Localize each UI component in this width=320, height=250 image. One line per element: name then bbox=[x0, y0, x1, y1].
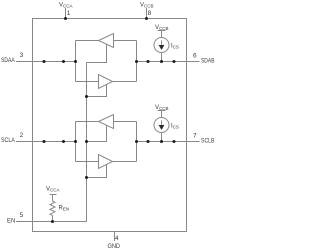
svg-text:VCCA: VCCA bbox=[46, 187, 60, 193]
svg-text:ICS: ICS bbox=[171, 124, 179, 130]
wire enable tap U1A bbox=[87, 44, 107, 62]
node SCLA b bbox=[62, 140, 65, 143]
svg-text:SDAB: SDAB bbox=[201, 59, 215, 65]
buffer U2A (B-to-A, points left) bbox=[99, 115, 114, 129]
node SDAA loop junction bbox=[74, 60, 77, 63]
svg-text:REN: REN bbox=[59, 206, 70, 212]
wire SDAA (pin 3 net, left) bbox=[16, 61, 76, 63]
wire enable tap U2B bbox=[87, 165, 107, 178]
node SCLB loop junction bbox=[135, 140, 138, 143]
current source I1 (VCCB boost on SDAB) bbox=[154, 31, 169, 62]
node SDAA a bbox=[43, 60, 46, 63]
node EN rail tap U1B bbox=[85, 95, 88, 98]
buffer U1A (B-to-A, points left) bbox=[99, 34, 114, 48]
wire channel-1 buffer loop bbox=[76, 41, 137, 82]
node SCLB a bbox=[147, 140, 150, 143]
svg-text:EN: EN bbox=[7, 218, 15, 224]
svg-text:3: 3 bbox=[20, 52, 24, 59]
node SDAB current source bbox=[160, 60, 163, 63]
wire enable tap U2A bbox=[87, 125, 107, 141]
svg-text:VCCB: VCCB bbox=[140, 3, 154, 9]
svg-text:SDAA: SDAA bbox=[1, 58, 15, 64]
wire EN (pin 5 net, bottom) bbox=[16, 63, 87, 222]
node SDAA b bbox=[62, 60, 65, 63]
svg-text:SCLA: SCLA bbox=[1, 138, 15, 144]
node SCLB current source bbox=[160, 140, 163, 143]
buffer U1B (A-to-B, points right) bbox=[99, 75, 113, 89]
svg-text:GND: GND bbox=[108, 244, 121, 250]
svg-text:6: 6 bbox=[193, 53, 197, 60]
node SCLA loop junction bbox=[74, 140, 77, 143]
chip outline box bbox=[33, 19, 187, 232]
resistor REN pull-up to VCCA bbox=[50, 195, 57, 222]
node pin1/VCCA on top edge bbox=[64, 17, 67, 20]
current source I2 (VCCB boost on SCLB) bbox=[154, 111, 169, 142]
wire SCLB (pin 7 net, right) bbox=[137, 141, 200, 143]
svg-text:VCCB: VCCB bbox=[155, 25, 169, 31]
wire enable tap U1B bbox=[87, 85, 107, 97]
buffer U2B (A-to-B, points right) bbox=[99, 155, 113, 169]
svg-text:VCCB: VCCB bbox=[155, 105, 169, 111]
node SDAB b bbox=[173, 60, 176, 63]
pin 1 VCCA stub bbox=[65, 8, 67, 19]
node EN rail tap U2B bbox=[85, 176, 88, 179]
node SDAB loop junction bbox=[135, 60, 138, 63]
node pin8/VCCB on top edge bbox=[145, 17, 148, 20]
wire channel-2 buffer loop bbox=[76, 122, 137, 162]
wire SCLA (pin 2 net, left) bbox=[16, 141, 76, 143]
svg-text:7: 7 bbox=[193, 133, 197, 140]
node EN rail tap U2A bbox=[85, 140, 88, 143]
svg-text:8: 8 bbox=[148, 10, 152, 17]
svg-text:ICS: ICS bbox=[171, 44, 179, 50]
pin 4 GND stub bbox=[114, 232, 116, 242]
node REN/EN junction bbox=[51, 220, 54, 223]
node SCLA a bbox=[43, 140, 46, 143]
node SDAB a bbox=[147, 60, 150, 63]
svg-text:4: 4 bbox=[115, 235, 119, 242]
svg-text:VCCA: VCCA bbox=[59, 3, 73, 9]
svg-text:2: 2 bbox=[20, 132, 24, 139]
svg-text:5: 5 bbox=[20, 212, 24, 219]
node SCLB b bbox=[173, 140, 176, 143]
wire SDAB (pin 6 net, right) bbox=[137, 61, 200, 63]
svg-text:1: 1 bbox=[67, 10, 71, 17]
pin 8 VCCB stub bbox=[146, 8, 148, 19]
svg-text:SCLB: SCLB bbox=[201, 139, 215, 145]
